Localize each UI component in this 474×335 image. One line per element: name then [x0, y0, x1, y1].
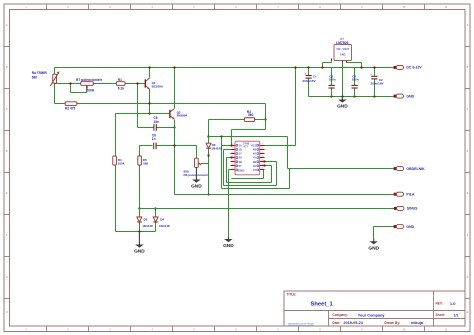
- wire C6 right drop to R6: [196, 146, 198, 159]
- node C5 Q2-emitter junction: [173, 126, 175, 128]
- svg-text:680: 680: [32, 75, 38, 79]
- label Q1: [152, 81, 164, 88]
- node Q1 collector junction: [148, 66, 150, 68]
- wire D4 leads: [155, 209, 157, 232]
- label R5: [143, 158, 149, 165]
- node pila junction: [207, 193, 209, 195]
- ground under IC: [223, 237, 234, 250]
- node Q1 emitter lower-rail junction: [148, 102, 150, 104]
- svg-text:B: B: [6, 66, 8, 69]
- resistor R3 body: [245, 118, 255, 122]
- label D6: [211, 143, 222, 151]
- wire R4 column: [115, 114, 117, 232]
- svg-text:1/1: 1/1: [454, 313, 459, 317]
- label C3: [329, 74, 336, 81]
- svg-text:A: A: [467, 24, 469, 27]
- svg-text:6.2k: 6.2k: [118, 86, 124, 90]
- potentiometer R7 body: [81, 82, 93, 86]
- node D4 sinus junction: [154, 207, 156, 209]
- resistor R5 body: [138, 156, 142, 165]
- svg-text:LM7805: LM7805: [336, 41, 349, 45]
- svg-text:560: 560: [248, 113, 254, 117]
- svg-text:15n: 15n: [154, 120, 160, 124]
- node R3 right junction: [264, 118, 266, 120]
- wire VCC feed to IC: [265, 68, 296, 146]
- svg-text:H: H: [467, 311, 469, 314]
- svg-text:Your Company: Your Company: [358, 313, 386, 317]
- svg-text:R7 potenciometr: R7 potenciometr: [76, 78, 103, 82]
- node IC pin4 junction: [230, 156, 232, 158]
- svg-text:GND: GND: [340, 53, 346, 56]
- wire branch to pin1 from obdelnik line: [222, 137, 231, 189]
- title block: [284, 291, 465, 327]
- svg-text:VCC: VCC: [251, 144, 258, 148]
- wire C4 column: [354, 68, 356, 97]
- potentiometer R7 wiper arrow: [86, 85, 88, 90]
- regulator internal pin labels: [336, 48, 350, 57]
- svg-text:D4: D4: [160, 218, 164, 222]
- svg-text:IC?: IC?: [244, 145, 249, 149]
- svg-text:1Y: 1Y: [239, 152, 242, 156]
- wire 7805 gnd pin: [342, 61, 344, 97]
- capacitor C4: [352, 85, 358, 88]
- svg-text:1N4148: 1N4148: [211, 147, 222, 151]
- resistor R1 body: [116, 82, 125, 86]
- regulator pin stubs: [332, 59, 347, 63]
- wire R7 wiper tap loop: [71, 84, 87, 93]
- connector OBDELNIK: [394, 167, 426, 171]
- svg-text:2019-05-23: 2019-05-23: [343, 321, 362, 325]
- capacitor C+ polarized: [305, 71, 312, 78]
- trimmer Ra arrow: [50, 71, 59, 86]
- svg-text:4A: 4A: [253, 152, 256, 156]
- IC U1 7400 quad NAND: [231, 141, 265, 175]
- svg-text:2Y: 2Y: [239, 164, 242, 168]
- resistor R4 body: [113, 156, 117, 165]
- label R7 potenciometr: [76, 78, 103, 93]
- svg-text:Date:: Date:: [332, 321, 340, 325]
- svg-text:1A: 1A: [239, 143, 242, 147]
- node obdelnik branch junction: [220, 135, 222, 137]
- svg-text:OBDELNIK: OBDELNIK: [406, 167, 425, 171]
- wire trimmer column: [54, 68, 56, 104]
- label C+: [303, 75, 317, 83]
- svg-text:easyeda.com/mikuja: easyeda.com/mikuja: [288, 321, 314, 325]
- label C4: [352, 74, 359, 81]
- svg-text:G: G: [467, 276, 469, 279]
- transistor Q2: [169, 109, 174, 119]
- svg-text:2A: 2A: [239, 156, 242, 160]
- diode D5: [137, 217, 142, 222]
- svg-text:VIN: VIN: [336, 48, 340, 51]
- svg-text:2B: 2B: [239, 160, 242, 164]
- wire base line Ra->R7->R1->Q1: [55, 83, 145, 85]
- label R1: [118, 78, 124, 91]
- node IC pin1 junction: [230, 144, 232, 146]
- label D5: [142, 218, 153, 228]
- node Q1 emitter to Q2 base junction: [148, 112, 150, 114]
- wire Q2 base line: [116, 113, 170, 115]
- svg-text:GND: GND: [238, 169, 244, 173]
- capacitor C5: [154, 124, 156, 131]
- ground regulator: [337, 96, 348, 110]
- label Ra TRIMR: [32, 71, 48, 79]
- svg-text:Company:: Company:: [332, 313, 348, 317]
- node vin rail junction: [321, 66, 323, 68]
- wire OBDELNIK route: [209, 137, 394, 169]
- wire gnd connector bottom right: [374, 227, 394, 239]
- node vout rail junction: [360, 66, 362, 68]
- svg-text:C: C: [467, 108, 469, 111]
- diode D4: [153, 217, 158, 222]
- node D6 top junction: [207, 135, 209, 137]
- node vcc rail junction: [294, 66, 296, 68]
- svg-text:PILA: PILA: [406, 193, 414, 197]
- wire C6 left drop to R5: [139, 146, 141, 156]
- svg-text:100k: 100k: [118, 162, 125, 166]
- capacitor C3: [329, 85, 335, 88]
- svg-text:GND: GND: [337, 104, 348, 110]
- trimmer Ra body: [53, 74, 57, 83]
- wire R3 to D6 top: [208, 120, 210, 137]
- label R2 475: [65, 106, 76, 110]
- regulator U2 LM7805 body: [334, 45, 352, 61]
- svg-text:Sheet:: Sheet:: [436, 313, 446, 317]
- wire IC loop B pin4: [227, 158, 272, 183]
- svg-text:REV:: REV:: [436, 302, 443, 306]
- svg-text:R2 475: R2 475: [65, 106, 76, 110]
- diode D6: [206, 143, 211, 148]
- svg-text:3A: 3A: [253, 164, 256, 168]
- svg-text:Sheet_1: Sheet_1: [311, 301, 334, 307]
- svg-text:mikuja: mikuja: [411, 321, 424, 325]
- node IC right pin5 junction: [263, 160, 265, 162]
- svg-text:3B: 3B: [253, 160, 256, 164]
- svg-text:R1: R1: [118, 78, 122, 82]
- node C+ rail junction: [307, 66, 309, 68]
- svg-text:200u/16V: 200u/16V: [371, 81, 384, 85]
- svg-text:4B: 4B: [253, 148, 256, 152]
- svg-text:4Y: 4Y: [253, 156, 256, 160]
- wire top +V rail: [55, 67, 394, 69]
- connector PILA: [394, 192, 415, 196]
- svg-text:1N4148: 1N4148: [159, 224, 170, 228]
- node gnd rail junctions: [330, 95, 375, 97]
- svg-text:VOUT: VOUT: [342, 48, 349, 51]
- wire C2 column: [374, 68, 376, 97]
- wire R3 line: [209, 119, 266, 121]
- wire Q2 emitter column: [174, 120, 176, 195]
- svg-text:A: A: [6, 24, 8, 27]
- node diode bus gnd junction: [138, 230, 140, 232]
- svg-text:DC 6-12V: DC 6-12V: [406, 66, 422, 70]
- node pot tap junction: [69, 82, 71, 84]
- svg-text:GND: GND: [368, 245, 379, 251]
- transistor Q1: [145, 78, 150, 90]
- svg-text:D: D: [6, 150, 8, 153]
- svg-text:BC550A: BC550A: [152, 84, 164, 88]
- svg-text:100n: 100n: [352, 78, 359, 82]
- wire C6 line: [140, 145, 197, 147]
- node D6 bottom junction: [207, 154, 209, 156]
- label C5: [154, 116, 160, 124]
- connector GND bottom: [394, 225, 415, 229]
- wire power ground rail: [309, 96, 394, 98]
- wire R5 to sinus line: [139, 165, 141, 209]
- svg-text:GND: GND: [134, 249, 145, 255]
- label C6: [152, 133, 156, 141]
- svg-text:3Y: 3Y: [253, 168, 256, 172]
- wire 7805 vin: [323, 61, 332, 68]
- wire Q1 collector to rail: [149, 68, 151, 78]
- svg-text:1N4148: 1N4148: [142, 224, 153, 228]
- label R4: [118, 158, 125, 165]
- node R5 D5 sinus junction: [138, 207, 140, 209]
- wire D6 column: [208, 137, 210, 195]
- wire IC loop A pin2: [224, 150, 277, 186]
- connector GND power: [394, 94, 415, 98]
- wire SINUS line: [140, 208, 395, 210]
- potentiometer R6 body: [195, 158, 199, 167]
- ground bottom right: [368, 239, 379, 252]
- wire rail drop to R3: [265, 104, 267, 120]
- connector DC 6-12V: [394, 65, 423, 69]
- svg-text:1B: 1B: [239, 148, 242, 152]
- wire PILA line: [175, 194, 394, 196]
- wire IC loop C pin10: [232, 170, 264, 179]
- label R3: [247, 110, 254, 117]
- label D4: [159, 218, 170, 228]
- svg-text:GND: GND: [406, 94, 414, 98]
- svg-text:GND: GND: [223, 243, 234, 249]
- svg-text:B: B: [467, 66, 469, 69]
- svg-text:100n: 100n: [329, 78, 336, 82]
- svg-text:GND: GND: [406, 225, 414, 229]
- wire C+ column: [308, 68, 310, 97]
- ground under R6: [191, 167, 202, 189]
- svg-text:H: H: [6, 311, 8, 314]
- svg-text:GND: GND: [191, 184, 202, 190]
- label U? LM7805: [336, 37, 349, 45]
- svg-text:TITLE:: TITLE:: [287, 293, 297, 297]
- node Q2 collector junction: [173, 66, 175, 68]
- node Q1 base junction: [136, 82, 138, 84]
- resistor R2 body: [65, 102, 77, 106]
- connector SINUS: [394, 206, 418, 210]
- wire Q2 collector to rail: [174, 68, 176, 109]
- node C2 rail junction: [373, 66, 375, 68]
- svg-text:200u/16V: 200u/16V: [303, 79, 316, 83]
- wire IC bottom long loop: [222, 169, 290, 189]
- wire IC gnd column: [229, 170, 231, 237]
- svg-text:1.0: 1.0: [450, 301, 456, 306]
- wire R6 wiper to D6 column: [201, 163, 209, 165]
- capacitor C6: [154, 143, 156, 150]
- svg-text:D: D: [467, 150, 469, 153]
- wire C5 right to Q2 emitter: [157, 127, 175, 129]
- svg-text:100K: 100K: [87, 88, 96, 92]
- svg-text:560: 560: [143, 162, 148, 166]
- svg-text:2N3904: 2N3904: [177, 113, 188, 117]
- capacitor C2 polarized: [370, 72, 377, 79]
- wire C3 column: [331, 68, 333, 97]
- svg-text:G: G: [6, 276, 8, 279]
- potentiometer R6 wiper arrow: [198, 162, 201, 165]
- ground under diode bus: [134, 232, 145, 255]
- wire D5 leads: [139, 209, 141, 232]
- node IC right pin6 junction: [263, 164, 265, 166]
- svg-text:D5: D5: [144, 218, 148, 222]
- svg-text:1n: 1n: [152, 137, 156, 141]
- svg-text:C: C: [6, 108, 8, 111]
- svg-text:Drawn By:: Drawn By:: [384, 321, 400, 325]
- wire Q1 base branch down to C5: [138, 84, 154, 128]
- wire 7805 vout: [347, 61, 362, 68]
- wire Q1 emitter down: [149, 90, 151, 114]
- label Q2: [177, 110, 188, 117]
- label C2: [371, 78, 384, 85]
- svg-text:SINUS: SINUS: [407, 207, 418, 211]
- wire bottom diode bus: [116, 231, 156, 233]
- label R6 potenciometr: [184, 169, 209, 177]
- wire R3-node to IC pin1: [232, 120, 266, 146]
- wire lower rail through R2: [55, 103, 266, 105]
- node C6 Q2-emitter junction: [173, 144, 175, 146]
